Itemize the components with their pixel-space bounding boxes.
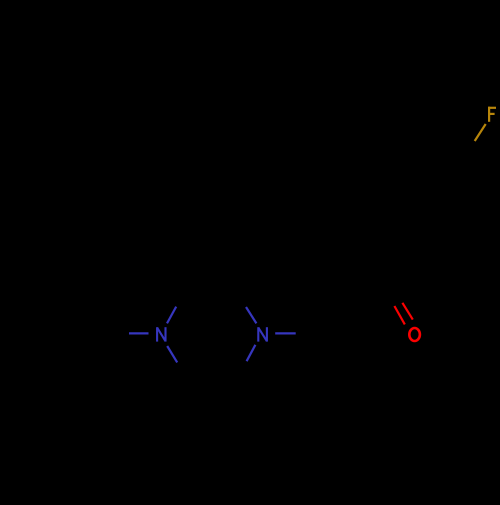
- node: fluorine atom label F (drawn as strokes): [488, 107, 496, 122]
- wire: bond F to ring carbon (F half): [475, 124, 486, 141]
- wire: carbonyl double bond inner segment (O half): [402, 303, 412, 320]
- wire: ring bond N2 down-left (N half): [247, 345, 256, 361]
- wire: ring bond N1 up-right (N half): [167, 307, 176, 324]
- node: oxygen atom label O (drawn as ellipse): [409, 328, 420, 341]
- node: nitrogen atom label N1 (drawn as strokes): [157, 327, 165, 341]
- wire: bond N2 to chain carbon (N half): [275, 332, 296, 334]
- wire: bond N1 to left substituent carbon (N half): [129, 332, 149, 334]
- wire: ring bond N2 up-left (N half): [246, 307, 256, 323]
- wire: carbonyl double bond outer segment (O half): [394, 306, 404, 324]
- wire: ring bond N1 down-right (N half): [167, 346, 177, 362]
- node: nitrogen atom label N2 (drawn as strokes): [258, 327, 267, 341]
